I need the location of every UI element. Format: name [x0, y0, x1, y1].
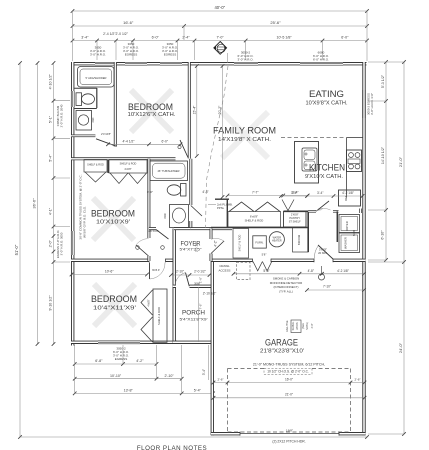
bottom dim row 6'-8 / 4'-2 — [75, 363, 157, 365]
svg-text:2'-4": 2'-4" — [182, 36, 190, 40]
svg-text:ATION: ATION — [296, 322, 299, 329]
svg-text:2'-10": 2'-10" — [176, 269, 184, 273]
svg-text:EGRESS: EGRESS — [164, 53, 177, 57]
bedroom1 door leaf — [180, 140, 188, 158]
svg-text:51'-0": 51'-0" — [14, 244, 19, 255]
svg-text:EATING: EATING — [309, 89, 344, 100]
utility room furnace — [253, 236, 266, 248]
top wall windows — [95, 62, 117, 65]
svg-text:BROOM: BROOM — [297, 234, 301, 245]
svg-text:FLOOR PLAN NOTES: FLOOR PLAN NOTES — [137, 445, 207, 450]
svg-text:5'4"X11'8"X9': 5'4"X11'8"X9' — [180, 318, 208, 322]
svg-text:7'-7": 7'-7" — [252, 191, 259, 195]
svg-text:15'-4": 15'-4" — [192, 105, 196, 114]
bedroom3 closet — [153, 289, 167, 342]
svg-text:2'-0" H.R.O. 2040: 2'-0" H.R.O. 2040 — [60, 104, 64, 127]
foyer front wall with entry door — [173, 285, 213, 288]
svg-text:21'8"X23'8"X10': 21'8"X23'8"X10' — [260, 349, 304, 355]
right wall window eating — [363, 90, 366, 118]
svg-text:6'-0": 6'-0" — [152, 36, 160, 40]
svg-text:5'-4": 5'-4" — [194, 389, 202, 393]
svg-text:3'-4": 3'-4" — [202, 369, 206, 375]
svg-text:2'-4 1/2"2'-0 1/2": 2'-4 1/2"2'-0 1/2" — [103, 32, 129, 36]
svg-text:5'7": 5'7" — [318, 207, 323, 211]
garage left wall — [211, 259, 214, 435]
svg-text:21'-0": 21'-0" — [285, 392, 293, 396]
left extension lines — [54, 100, 71, 102]
top exterior wall — [71, 62, 367, 65]
bath1 door leaf — [96, 139, 117, 147]
bath2 right wall — [189, 159, 192, 205]
svg-text:4'x6'8": 4'x6'8" — [148, 299, 151, 306]
dim 4'-4 1/2 / 6'-0 bedroom1 — [108, 143, 181, 145]
bedroom1 / hall wall with closets — [71, 157, 176, 160]
kitchen counter right — [346, 138, 348, 198]
kitchen bottom wall — [284, 210, 310, 212]
svg-text:EGRESS: EGRESS — [115, 357, 128, 361]
svg-text:5'8": 5'8" — [262, 253, 267, 257]
pantry — [284, 212, 307, 228]
svg-text:5'4"X7'3.5": 5'4"X7'3.5" — [180, 248, 203, 252]
svg-text:5' ADA/SHOWER: 5' ADA/SHOWER — [86, 76, 107, 80]
svg-text:10'X10'X9': 10'X10'X9' — [96, 220, 130, 226]
bath1 bottom wall with door — [71, 135, 95, 138]
left wall windows — [71, 91, 74, 107]
watermark X bedroom1 — [131, 90, 172, 132]
bottom dim row 10'-10 / 2'-10 — [75, 378, 182, 380]
svg-text:4'-8": 4'-8" — [308, 269, 314, 273]
svg-text:DRYER: DRYER — [345, 221, 349, 230]
svg-text:2'6"X6'8": 2'6"X6'8" — [149, 230, 159, 233]
svg-text:SHELF & ROD: SHELF & ROD — [239, 234, 242, 251]
utility room bifold doors to garage — [253, 258, 272, 262]
garage top wall / house front wall right section — [211, 259, 366, 262]
washer — [339, 233, 360, 253]
svg-text:4'-10 1/2": 4'-10 1/2" — [49, 74, 53, 90]
range with burners — [347, 150, 362, 172]
svg-text:6'-8": 6'-8" — [95, 359, 103, 363]
smoke detector garage — [319, 274, 325, 280]
top dimension line 40'-0, overall width — [73, 10, 368, 12]
svg-text:SHELF & ROD: SHELF & ROD — [157, 307, 161, 325]
left dimension segments row — [53, 63, 55, 344]
svg-text:10'-6": 10'-6" — [105, 270, 114, 274]
kitchen bottom dim row — [281, 195, 363, 197]
svg-text:10'-10": 10'-10" — [110, 374, 122, 378]
svg-text:3'-4": 3'-4" — [291, 191, 297, 195]
watermark X bedroom2 — [93, 198, 134, 240]
svg-text:40'-0": 40'-0" — [214, 5, 225, 10]
svg-text:(TYP. ALL): (TYP. ALL) — [279, 289, 293, 293]
bedroom2 right wall — [147, 159, 150, 238]
svg-text:5'-4": 5'-4" — [49, 154, 53, 162]
svg-text:FURN.: FURN. — [255, 240, 263, 244]
bath1 shower 5' ADA — [78, 67, 115, 88]
svg-text:10'4"X11'X9': 10'4"X11'X9' — [93, 305, 136, 311]
svg-text:2'-0": 2'-0" — [49, 239, 53, 247]
svg-text:NOTE): NOTE) — [306, 322, 309, 330]
svg-text:36'-6": 36'-6" — [32, 198, 37, 209]
bottom dim row 13'-8 / 5'-4 — [75, 392, 213, 394]
bath2 door leaf — [191, 206, 202, 217]
top dimension line 16'-6 / 25'-6 — [73, 25, 368, 27]
svg-text:36 B.P.: 36 B.P. — [152, 269, 160, 272]
garage bottom wall with garage door opening — [211, 432, 366, 435]
svg-text:GARAGE: GARAGE — [265, 338, 298, 349]
svg-text:4'-2": 4'-2" — [214, 240, 218, 246]
svg-text:20 MIN.: 20 MIN. — [318, 251, 328, 255]
watermark X bedroom3 — [94, 284, 135, 326]
laundry door leaf — [316, 201, 329, 211]
bedroom3 bottom exterior wall — [71, 341, 177, 344]
laundry left wall — [336, 211, 338, 242]
svg-text:PPSL: PPSL — [217, 206, 225, 210]
svg-text:10'X12'6"X CATH.: 10'X12'6"X CATH. — [128, 112, 176, 118]
svg-text:6'-10": 6'-10" — [380, 230, 384, 240]
svg-text:SHELF & ROD: SHELF & ROD — [245, 218, 264, 222]
svg-text:5'-1": 5'-1" — [49, 115, 53, 123]
bath1 vanity with sink — [76, 111, 92, 131]
svg-text:3'-0" H.R.O.: 3'-0" H.R.O. — [90, 53, 106, 57]
svg-text:4'x6'8": 4'x6'8" — [124, 168, 131, 171]
svg-text:3'-4": 3'-4" — [81, 36, 89, 40]
hall closet 6'x6'8 — [226, 199, 228, 228]
svg-text:W/ 5/8" GYP. B.D. CLG.: W/ 5/8" GYP. B.D. CLG. — [83, 206, 87, 238]
right dimension line 21'-0 / 24'-0 — [403, 62, 405, 434]
bath2 toilet — [181, 184, 187, 197]
foyer right wall — [210, 229, 213, 239]
garage entry door leaf swing — [318, 245, 333, 259]
svg-text:5'-3 1/2": 5'-3 1/2" — [381, 74, 385, 88]
svg-text:2'-6": 2'-6" — [355, 377, 361, 381]
svg-text:9'-10 1/2": 9'-10 1/2" — [49, 295, 53, 311]
svg-text:2'-10 1/2": 2'-10 1/2" — [203, 291, 216, 295]
bath2 tub 46in — [150, 161, 188, 181]
extension lines top — [96, 41, 98, 61]
svg-text:46" TUB/SHOWER: 46" TUB/SHOWER — [157, 169, 179, 173]
svg-text:2'4"x6'8": 2'4"x6'8" — [101, 132, 111, 136]
refrigerator — [339, 190, 361, 206]
svg-text:13'-8": 13'-8" — [124, 389, 134, 393]
garage interior dim row 5'-6 4'-8 4'-2 — [234, 273, 365, 275]
left dimension line 51'-0 overall height — [19, 63, 21, 437]
svg-text:7'-6": 7'-6" — [199, 304, 203, 310]
top dimension line segments row — [73, 40, 368, 42]
svg-text:10'-5 1/8": 10'-5 1/8" — [277, 36, 293, 40]
watermark X family room — [222, 112, 268, 158]
svg-text:BEDROOM: BEDROOM — [91, 209, 135, 220]
bath1 toilet — [76, 93, 82, 106]
foyer-hall door leaf — [211, 241, 224, 254]
bedroom3 door leaf swing — [149, 263, 151, 280]
svg-text:3'-4": 3'-4" — [317, 191, 323, 195]
kitchen island with sink — [295, 142, 319, 184]
svg-text:3'-0" H.R.O. 3'-0": 3'-0" H.R.O. 3'-0" — [370, 93, 374, 115]
svg-text:7'-10": 7'-10" — [323, 285, 331, 289]
closet shelf&rod left of bedroom2 — [84, 160, 107, 173]
svg-text:GAR./HSE.: GAR./HSE. — [286, 320, 289, 332]
svg-text:1940: 1940 — [164, 213, 167, 219]
kitchen ceiling dashed line — [281, 137, 346, 139]
bedroom2 door leaf — [136, 245, 149, 256]
svg-text:EGRESS: EGRESS — [125, 53, 138, 57]
svg-text:BO36: BO36 — [353, 229, 356, 236]
svg-text:24/0: 24/0 — [92, 117, 95, 122]
front entry door leaf and swing — [186, 273, 190, 287]
dryer — [339, 215, 360, 233]
left dimension line 36'-6 — [37, 63, 39, 344]
svg-text:4'-2 1/8": 4'-2 1/8" — [337, 269, 349, 273]
svg-text:10 1/2" CH.O.S. @ 2'-0" O.C.: 10 1/2" CH.O.S. @ 2'-0" O.C. — [267, 370, 309, 374]
svg-text:14'-10 1/2": 14'-10 1/2" — [381, 146, 385, 164]
bedroom3 interior width dim 10'-6 — [72, 274, 148, 276]
svg-text:(2) 2X12 PITCH HDR.: (2) 2X12 PITCH HDR. — [272, 440, 305, 444]
svg-text:6'-0": 6'-0" — [162, 140, 169, 144]
hall-foyer door leaf — [156, 230, 169, 240]
closet shelf&rod bedroom2 4'x6'8 — [109, 160, 147, 174]
bedroom3 door opening — [149, 258, 166, 262]
svg-text:24'-0": 24'-0" — [398, 342, 403, 353]
garage-house entry door opening — [314, 258, 333, 262]
svg-text:PORCH: PORCH — [182, 310, 205, 317]
svg-text:WASHER: WASHER — [343, 237, 347, 249]
svg-text:1'-6": 1'-6" — [199, 277, 203, 283]
svg-text:5'-6": 5'-6" — [263, 269, 269, 273]
svg-text:4'-1": 4'-1" — [49, 207, 53, 215]
svg-text:4'-0": 4'-0" — [311, 323, 314, 328]
svg-text:21'-0" MONO-TRUSS SYSTEM, 6/12: 21'-0" MONO-TRUSS SYSTEM, 6/12 PITCH, — [253, 362, 325, 366]
svg-text:ST SHELF: ST SHELF — [289, 221, 301, 224]
hall bottom wall — [191, 227, 232, 230]
svg-text:4'-8": 4'-8" — [202, 190, 208, 194]
laundry top wall with door — [308, 210, 316, 213]
svg-text:4'-2 1/8": 4'-2 1/8" — [342, 191, 354, 195]
hall-utility bottom wall — [211, 227, 308, 229]
front wall between bedroom2 and bedroom3 — [71, 259, 175, 262]
garage separation note block — [291, 320, 301, 333]
svg-text:SEPAR-: SEPAR- — [292, 321, 295, 330]
water heater — [269, 232, 284, 247]
right exterior wall — [362, 62, 365, 435]
svg-text:2'-6": 2'-6" — [218, 377, 224, 381]
svg-text:25'-6": 25'-6" — [270, 20, 281, 25]
garage door dashed header outline — [228, 368, 265, 370]
svg-text:2'-0 1/2": 2'-0 1/2" — [194, 242, 198, 252]
broom closet — [307, 211, 309, 252]
bottom extension lines — [74, 345, 76, 393]
cathedral ceiling dashed line family room — [206, 66, 229, 228]
svg-text:2'-0 1/2": 2'-0 1/2" — [194, 269, 206, 273]
svg-text:6'-0": 6'-0" — [341, 36, 349, 40]
svg-text:3'-0" H.R.O. 3050: 3'-0" H.R.O. 3050 — [60, 232, 64, 255]
dim 7'-7 / 3'-4 above closet — [228, 195, 308, 197]
svg-text:7'-0": 7'-0" — [217, 36, 225, 40]
right extension lines — [368, 100, 386, 102]
bath1 plumbing wall — [96, 88, 98, 108]
svg-text:PANTRY: PANTRY — [289, 216, 300, 220]
foyer-porch left wall — [172, 229, 175, 344]
svg-text:10'X9'8"X CATH.: 10'X9'8"X CATH. — [306, 101, 348, 107]
svg-text:14'X19'8" X CATH.: 14'X19'8" X CATH. — [218, 137, 271, 143]
right dimension segments row — [385, 62, 387, 260]
smoke detector circles bedroom2 hall — [136, 246, 140, 250]
porch bottom wall — [173, 341, 213, 344]
svg-text:6'-0" H.R.O.: 6'-0" H.R.O. — [313, 58, 329, 62]
svg-text:BEDROOM: BEDROOM — [91, 294, 137, 305]
svg-text:KITCHEN: KITCHEN — [309, 163, 345, 174]
svg-text:ACCESS: ACCESS — [219, 268, 231, 272]
svg-text:SHELF & ROD: SHELF & ROD — [120, 163, 137, 166]
svg-text:20'-2": 20'-2" — [218, 105, 222, 114]
bedroom1 right wall — [188, 62, 191, 159]
svg-text:21'-0": 21'-0" — [398, 156, 403, 167]
svg-text:(SEE: (SEE — [302, 323, 305, 329]
shelf&rod strip closet in utility hall — [233, 229, 249, 259]
left exterior wall — [71, 62, 74, 346]
svg-text:3'-0" H.R.O.: 3'-0" H.R.O. — [238, 58, 254, 62]
bath1 right wall — [114, 62, 117, 147]
svg-text:SHELF & ROD: SHELF & ROD — [87, 164, 104, 167]
ceiling fan diamond symbol — [214, 42, 227, 55]
bedroom3 window — [98, 341, 140, 344]
svg-text:6'-0": 6'-0" — [147, 190, 153, 194]
svg-text:4'-4 1/2": 4'-4 1/2" — [122, 140, 135, 144]
svg-text:9'X10'X CATH.: 9'X10'X CATH. — [305, 174, 343, 180]
svg-text:16'-0": 16'-0" — [285, 377, 293, 381]
svg-text:2'-10": 2'-10" — [165, 374, 175, 378]
svg-text:4'-2": 4'-2" — [136, 359, 144, 363]
bath2 vanity sink — [170, 205, 189, 228]
svg-text:HEATER: HEATER — [272, 239, 282, 242]
bath2 bottom wall — [149, 227, 156, 230]
svg-text:16'-6": 16'-6" — [123, 20, 134, 25]
